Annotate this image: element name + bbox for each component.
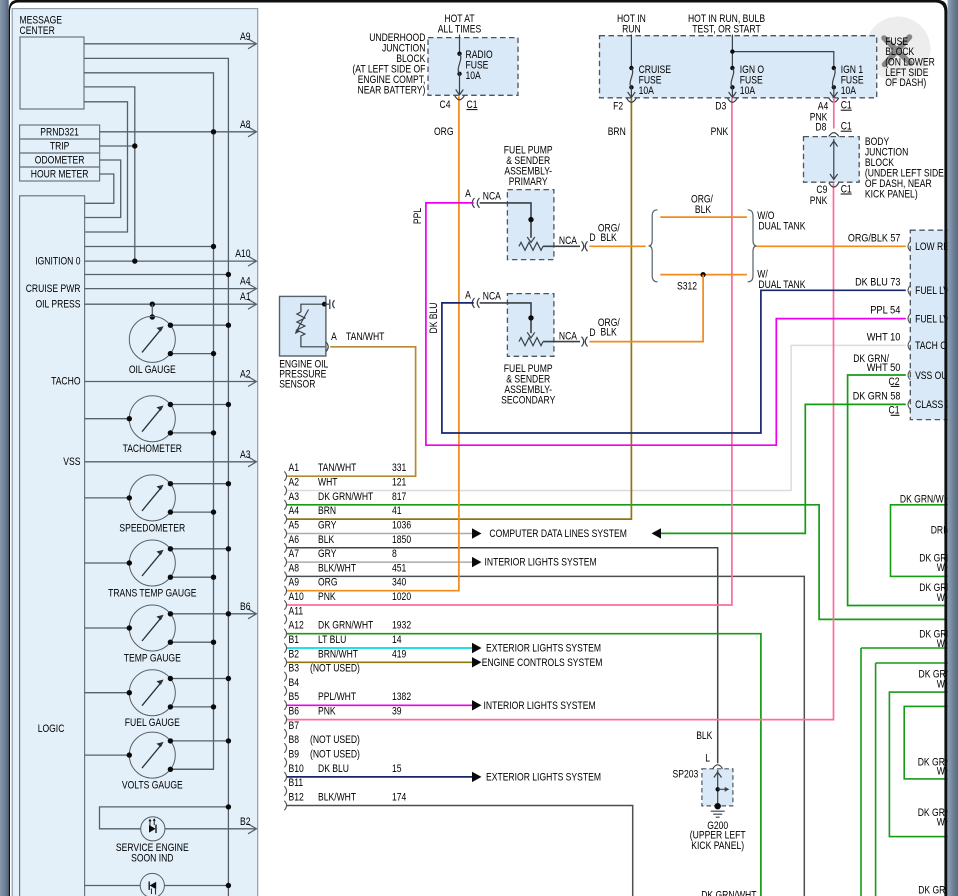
svg-text:A2: A2: [240, 369, 251, 381]
svg-text:DK GR: DK GR: [918, 885, 945, 896]
svg-text:D3: D3: [715, 101, 726, 113]
pin A10: [284, 600, 286, 610]
svg-text:L: L: [705, 753, 710, 765]
gauge SPEEDOMETER: [129, 475, 175, 521]
sensor internal wire bottom: [301, 337, 325, 347]
instrument cluster box: [12, 9, 258, 896]
svg-text:LOGIC: LOGIC: [38, 723, 65, 735]
fuse RADIO FUSE 10A: [457, 52, 461, 56]
svg-text:BLK/WHT: BLK/WHT: [318, 562, 356, 574]
svg-text:10A: 10A: [740, 85, 756, 97]
pin wht10: [908, 341, 910, 351]
gauge FUEL GAUGE: [129, 670, 175, 716]
gauge VOLTS GAUGE: [129, 732, 175, 778]
connector arcs primary A: [472, 198, 479, 208]
svg-text:B5: B5: [289, 691, 300, 703]
box driver door R1: [891, 505, 953, 577]
arrow INTERIOR LIGHTS SYSTEM: [472, 700, 482, 710]
wire msg A9: [84, 43, 256, 45]
wire primary internal: [480, 203, 531, 238]
svg-text:1850: 1850: [392, 534, 411, 546]
svg-text:DK GRN/WH: DK GRN/WH: [900, 493, 950, 505]
svg-text:A: A: [331, 331, 337, 343]
wire splice top branch: [660, 216, 747, 218]
svg-text:PPL/WHT: PPL/WHT: [318, 691, 356, 703]
svg-text:A7: A7: [289, 548, 300, 560]
svg-text:DUAL TANK: DUAL TANK: [758, 221, 806, 233]
wire ign branch: [732, 52, 833, 68]
svg-text:DK GRN/WHT: DK GRN/WHT: [318, 620, 374, 632]
sensor case symbol: [324, 303, 329, 305]
svg-text:39: 39: [392, 706, 402, 718]
pin A3: [284, 500, 286, 510]
pin B10: [284, 772, 286, 782]
svg-text:A11: A11: [289, 605, 304, 617]
svg-text:F2: F2: [613, 101, 623, 113]
svg-text:ODOMETER: ODOMETER: [35, 155, 85, 167]
svg-text:10A: 10A: [639, 85, 655, 97]
svg-text:121: 121: [392, 477, 406, 489]
pump primary box: [507, 190, 554, 260]
wire B10 DK BLU: [287, 776, 472, 778]
wire VSS A3: [85, 461, 256, 463]
svg-text:INTERIOR LIGHTS SYSTEM: INTERIOR LIGHTS SYSTEM: [485, 557, 597, 569]
svg-text:8: 8: [392, 548, 397, 560]
svg-text:B2: B2: [289, 648, 300, 660]
wire A4 BRN: [287, 98, 631, 519]
box R2: [861, 648, 952, 896]
wire TRIP: [100, 145, 135, 147]
svg-text:A: A: [465, 290, 471, 302]
logic box: [20, 196, 85, 896]
pin orgblk57: [908, 242, 910, 252]
arrow EXTERIOR LIGHTS SYSTEM: [472, 643, 482, 653]
sensor internal wire: [301, 304, 324, 312]
svg-text:LT BLU: LT BLU: [318, 634, 346, 646]
svg-text:NCA: NCA: [483, 190, 502, 202]
svg-text:BRN: BRN: [608, 126, 626, 138]
svg-text:EXTERIOR LIGHTS SYSTEM: EXTERIOR LIGHTS SYSTEM: [486, 771, 601, 783]
svg-text:451: 451: [392, 562, 406, 574]
svg-text:A10: A10: [235, 248, 250, 260]
svg-text:TACHO: TACHO: [51, 376, 81, 388]
svg-text:VSS OU: VSS OU: [915, 370, 947, 382]
svg-text:PNK: PNK: [318, 706, 336, 718]
connector arcs primary D: [582, 241, 588, 251]
wire A9 ORG: [287, 96, 459, 591]
svg-text:SECONDARY: SECONDARY: [501, 395, 556, 407]
svg-text:A3: A3: [289, 491, 300, 503]
splice S312 dot: [701, 272, 706, 277]
arrow INTERIOR LIGHTS SYSTEM: [472, 557, 482, 567]
svg-text:331: 331: [392, 462, 406, 474]
svg-text:B10: B10: [289, 763, 304, 775]
indicator SERVICE ENGINE SOON loop: [100, 807, 229, 829]
svg-text:419: 419: [392, 648, 406, 660]
svg-text:A1: A1: [289, 462, 300, 474]
wire body junction internal: [833, 139, 835, 180]
svg-text:41: 41: [392, 505, 402, 517]
svg-text:(NOT USED): (NOT USED): [310, 749, 360, 761]
ground G200: [715, 803, 721, 809]
gauge OIL GAUGE stem: [151, 304, 153, 316]
wire secondary internal: [480, 303, 531, 333]
wire msg bus228: [84, 58, 228, 896]
pin A1: [284, 471, 286, 481]
svg-text:NCA: NCA: [559, 235, 578, 247]
watermark circle: [866, 17, 931, 82]
pin A8: [284, 572, 286, 582]
svg-text:TAN/WHT: TAN/WHT: [318, 462, 357, 474]
svg-text:BLK: BLK: [318, 534, 335, 546]
svg-text:SENSOR: SENSOR: [279, 379, 315, 391]
svg-text:DUAL TANK: DUAL TANK: [758, 279, 806, 291]
svg-text:ALL TIMES: ALL TIMES: [438, 23, 481, 35]
svg-text:NEAR BATTERY): NEAR BATTERY): [358, 84, 426, 96]
pin B5: [284, 700, 286, 710]
svg-text:TACH O: TACH O: [915, 340, 947, 352]
body junction block box: [804, 137, 860, 183]
svg-text:A4: A4: [289, 505, 300, 517]
svg-text:ORG: ORG: [434, 126, 454, 138]
svg-text:A: A: [465, 188, 471, 200]
svg-text:PPL 54: PPL 54: [870, 305, 900, 317]
svg-text:174: 174: [392, 791, 406, 803]
svg-text:PRIMARY: PRIMARY: [509, 176, 548, 188]
window left strip: [0, 0, 9, 896]
box R4: [904, 706, 952, 779]
svg-text:GRY: GRY: [318, 548, 337, 560]
svg-text:BRN: BRN: [318, 505, 336, 517]
arrow class2 to computer data lines: [652, 528, 662, 538]
wire DK BLU: [442, 290, 906, 433]
svg-text:INTERIOR LIGHTS SYSTEM: INTERIOR LIGHTS SYSTEM: [484, 700, 596, 712]
svg-text:WHT 50: WHT 50: [867, 362, 901, 374]
wire logic-228: [85, 274, 229, 276]
svg-text:FUEL LV: FUEL LV: [915, 313, 949, 325]
pin A9: [284, 586, 286, 596]
wire logic-213: [85, 246, 214, 248]
svg-text:PPL: PPL: [412, 208, 424, 224]
wire IGNITION A10: [85, 260, 256, 262]
wire ODOMETER: [85, 160, 121, 218]
svg-text:D: D: [589, 232, 595, 244]
wire B2 BRN/WHT: [287, 661, 472, 663]
svg-text:VSS: VSS: [63, 456, 80, 468]
svg-text:S312: S312: [677, 281, 697, 293]
fuse CRUISE FUSE 10A: [629, 66, 633, 70]
wire msg stair: [84, 102, 128, 232]
svg-text:BRN/WHT: BRN/WHT: [318, 648, 358, 660]
svg-text:B2: B2: [240, 816, 251, 828]
svg-text:B12: B12: [289, 791, 304, 803]
svg-text:B3: B3: [289, 663, 300, 675]
wire B5 PPL/WHT: [287, 704, 472, 706]
svg-text:C4: C4: [440, 99, 451, 111]
svg-text:CRUISE PWR: CRUISE PWR: [26, 283, 81, 295]
wire B2: [165, 828, 256, 830]
gauge TEMP GAUGE: [129, 605, 175, 651]
pin B3: [284, 672, 286, 682]
wire B6 PNK: [287, 183, 834, 719]
wire B1 LT BLU: [287, 647, 472, 649]
svg-text:EXTERIOR LIGHTS SYSTEM: EXTERIOR LIGHTS SYSTEM: [486, 643, 601, 655]
wire hot-cruise: [630, 35, 632, 69]
svg-text:NCA: NCA: [559, 330, 578, 342]
pin A12: [284, 629, 286, 639]
svg-text:FUEL LV: FUEL LV: [915, 285, 949, 297]
svg-text:BLK: BLK: [601, 327, 618, 339]
connector arcs secondary D: [582, 337, 588, 347]
svg-text:A4: A4: [240, 276, 251, 288]
svg-text:NCA: NCA: [483, 290, 502, 302]
svg-text:FUEL GAUGE: FUEL GAUGE: [125, 717, 180, 729]
svg-text:A8: A8: [240, 119, 251, 131]
sensor exit arc: [326, 342, 328, 352]
wire DK GRN/WHT 50 vss: [848, 375, 946, 606]
svg-text:A2: A2: [289, 477, 300, 489]
svg-text:817: 817: [392, 491, 406, 503]
wire A5 GRY: [287, 533, 472, 535]
indicator SERVICE ENGINE SOON IND: [141, 817, 165, 841]
pin A5: [284, 529, 286, 539]
splice right brace: [748, 210, 757, 282]
svg-text:B9: B9: [289, 749, 300, 761]
pump secondary box: [507, 294, 554, 357]
svg-text:B6: B6: [289, 706, 300, 718]
fuse IGN 1 FUSE 10A: [832, 66, 836, 70]
svg-text:SOON IND: SOON IND: [131, 852, 173, 864]
gauge OIL GAUGE: [129, 316, 175, 362]
svg-text:PNK: PNK: [711, 126, 729, 138]
wire A6 BLK: [287, 548, 718, 764]
svg-text:D: D: [589, 327, 595, 339]
wire OIL PRESS A1: [85, 303, 256, 305]
svg-text:SP203: SP203: [673, 769, 699, 781]
svg-text:14: 14: [392, 634, 402, 646]
wire PPL: [426, 203, 906, 445]
gauge TRANS TEMP GAUGE: [129, 540, 175, 586]
svg-text:IGNITION 0: IGNITION 0: [35, 255, 80, 267]
svg-text:B1: B1: [289, 634, 300, 646]
svg-text:BLK: BLK: [695, 204, 712, 216]
splice SP203 box: [702, 769, 733, 806]
indicator bottom lamp: [85, 885, 141, 887]
svg-text:A1: A1: [240, 291, 251, 303]
resistor sensor: [297, 312, 305, 337]
pin B4: [284, 686, 286, 696]
resistor primary sender: [519, 242, 543, 250]
wire TACHO A2: [85, 381, 256, 383]
resistor secondary sender: [519, 338, 543, 346]
svg-text:A9: A9: [289, 577, 300, 589]
wire msg bus135: [84, 87, 135, 261]
svg-text:(NOT USED): (NOT USED): [310, 734, 360, 746]
wire A2 WHT: [287, 345, 906, 490]
wire A10 PNK: [287, 98, 732, 605]
svg-text:PNK: PNK: [318, 591, 336, 603]
connector arcs secondary A: [472, 298, 479, 308]
svg-text:1932: 1932: [392, 620, 411, 632]
svg-text:A8: A8: [289, 562, 300, 574]
wire A12 DK GRN/WHT: [287, 634, 761, 896]
svg-text:OIL PRESS: OIL PRESS: [36, 298, 81, 310]
sensor variable arrow: [297, 310, 309, 332]
PRND321 box: [20, 125, 100, 139]
HOUR METER box: [20, 167, 100, 181]
svg-text:DK BLU: DK BLU: [318, 763, 349, 775]
svg-text:10A: 10A: [841, 85, 857, 97]
pin B2: [284, 658, 286, 668]
message center box: [20, 37, 84, 109]
wire splice bottom branch: [660, 274, 747, 276]
pin grnwht50: [908, 370, 910, 380]
pin dkgrn58: [908, 400, 910, 410]
svg-text:BLK: BLK: [696, 730, 713, 742]
svg-text:A5: A5: [289, 520, 300, 532]
svg-text:DK BLU: DK BLU: [428, 302, 440, 333]
wire ORG/BLK secondary: [589, 275, 703, 342]
right connector box: [910, 230, 952, 419]
svg-text:10A: 10A: [466, 70, 482, 82]
arrow EXTERIOR LIGHTS SYSTEM: [472, 772, 482, 782]
svg-text:B4: B4: [289, 677, 300, 689]
svg-text:340: 340: [392, 577, 406, 589]
wire A7 GRY: [287, 561, 472, 563]
watermark X: [884, 37, 910, 65]
svg-text:1036: 1036: [392, 520, 411, 532]
svg-text:CENTER: CENTER: [20, 25, 55, 37]
svg-text:TEST, OR START: TEST, OR START: [692, 23, 761, 35]
svg-text:B7: B7: [289, 720, 300, 732]
pin B12: [284, 801, 286, 811]
svg-text:OIL GAUGE: OIL GAUGE: [129, 364, 176, 376]
svg-text:1020: 1020: [392, 591, 411, 603]
wire msg bus213: [84, 73, 214, 770]
pin A11: [284, 615, 286, 625]
svg-text:1382: 1382: [392, 691, 411, 703]
gauge TACHOMETER: [129, 396, 175, 442]
svg-text:ORG/BLK 57: ORG/BLK 57: [848, 232, 901, 244]
underhood junction block box: [428, 38, 518, 96]
svg-text:(NOT USED): (NOT USED): [310, 663, 360, 675]
svg-text:BLK: BLK: [601, 232, 618, 244]
pin A6: [284, 543, 286, 553]
svg-text:BLK/WHT: BLK/WHT: [318, 791, 356, 803]
svg-text:HOUR METER: HOUR METER: [31, 169, 89, 181]
wire B12 BLK/WHT: [287, 806, 633, 896]
svg-text:ENGINE CONTROLS SYSTEM: ENGINE CONTROLS SYSTEM: [482, 657, 603, 669]
svg-text:SPEEDOMETER: SPEEDOMETER: [119, 522, 185, 534]
svg-text:TACHOMETER: TACHOMETER: [123, 443, 182, 455]
svg-text:WHT 10: WHT 10: [867, 331, 901, 343]
window right strip: [948, 0, 958, 896]
box R5: [889, 692, 952, 837]
svg-text:ORG: ORG: [318, 577, 338, 589]
svg-text:A3: A3: [240, 449, 251, 461]
svg-text:OF DASH): OF DASH): [885, 77, 926, 89]
wire ORG/BLK 57: [756, 245, 906, 247]
svg-text:VOLTS GAUGE: VOLTS GAUGE: [122, 780, 183, 792]
svg-text:COMPUTER DATA LINES SYSTEM: COMPUTER DATA LINES SYSTEM: [489, 528, 627, 540]
SP203 branch arrow: [718, 788, 725, 790]
wire hot-igno: [731, 35, 733, 69]
svg-text:D8: D8: [815, 121, 826, 133]
wire A8 BLK/WHT: [287, 576, 804, 896]
svg-text:A12: A12: [289, 620, 304, 632]
wire A1 TAN/WHT: [287, 347, 416, 476]
pin B7: [284, 729, 286, 739]
wire CRUISE A4: [85, 288, 256, 290]
wire ORG/BLK primary: [589, 245, 645, 247]
fuse block box: [600, 36, 877, 98]
svg-text:B6: B6: [240, 601, 251, 613]
svg-text:KICK PANEL): KICK PANEL): [865, 188, 918, 200]
svg-text:WHT: WHT: [318, 477, 338, 489]
arrow ENGINE CONTROLS SYSTEM: [472, 657, 482, 667]
pin B8: [284, 743, 286, 753]
wire DK GRN 58 class2: [661, 404, 906, 533]
svg-text:A6: A6: [289, 534, 300, 546]
engine oil pressure sensor box: [280, 296, 326, 356]
pin A7: [284, 557, 286, 567]
pin B6: [284, 715, 286, 725]
svg-text:RUN: RUN: [622, 23, 641, 35]
svg-text:B11: B11: [289, 777, 304, 789]
svg-text:A9: A9: [240, 31, 251, 43]
pin ppl54: [908, 314, 910, 324]
wire A8 line: [100, 131, 256, 133]
svg-text:A10: A10: [289, 591, 304, 603]
fuse IGN 0 FUSE 10A: [730, 66, 734, 70]
wire A3 DK GRN/WHT: [287, 505, 946, 620]
svg-text:TEMP GAUGE: TEMP GAUGE: [124, 653, 181, 665]
wire PNK A4-D8: [833, 98, 835, 129]
svg-text:TRIP: TRIP: [50, 141, 70, 153]
box R3: [876, 663, 952, 896]
wire HOUR METER: [85, 174, 114, 203]
pin B9: [284, 758, 286, 768]
ODOMETER box: [20, 153, 100, 167]
svg-text:DK BLU 73: DK BLU 73: [855, 276, 900, 288]
svg-text:TRANS TEMP GAUGE: TRANS TEMP GAUGE: [108, 588, 196, 600]
svg-text:DK GRN/WHT: DK GRN/WHT: [318, 491, 374, 503]
pin A4: [284, 514, 286, 524]
svg-text:DK GRN/WHT: DK GRN/WHT: [701, 890, 757, 896]
wire hot-radio: [459, 35, 461, 54]
pin B1: [284, 643, 286, 653]
splice left brace: [649, 210, 658, 282]
svg-text:B8: B8: [289, 734, 300, 746]
pin A2: [284, 486, 286, 496]
svg-text:KICK PANEL): KICK PANEL): [691, 840, 744, 852]
svg-text:15: 15: [392, 763, 402, 775]
TRIP box: [20, 139, 100, 153]
pin B11: [284, 786, 286, 796]
svg-text:TAN/WHT: TAN/WHT: [346, 331, 385, 343]
svg-text:GRY: GRY: [318, 520, 337, 532]
svg-text:DK GRN 58: DK GRN 58: [853, 390, 901, 402]
svg-text:PNK: PNK: [810, 195, 828, 207]
gauge TEMP GAUGE B6 wire: [170, 613, 255, 615]
svg-text:PRND321: PRND321: [40, 127, 79, 139]
pin dkblu73: [908, 286, 910, 296]
arrow COMPUTER DATA LINES SYSTEM: [472, 528, 482, 538]
SP203 internal wire: [717, 770, 719, 805]
